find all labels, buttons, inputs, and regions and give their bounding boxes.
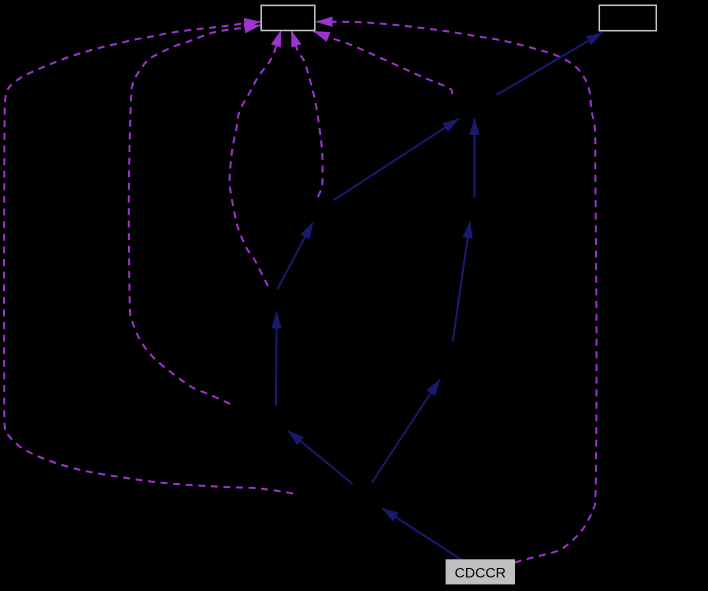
- svg-text:CDCCR: CDCCR: [455, 566, 506, 582]
